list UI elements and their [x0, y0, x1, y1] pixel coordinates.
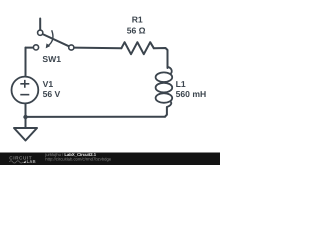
- CircuitLab logo waveform: [9, 161, 23, 163]
- wire: switch common to resistor R1 left lead: [74, 47, 122, 50]
- wire: L1 bottom to bottom-right corner: [165, 107, 167, 117]
- footer bar: [0, 153, 220, 166]
- switch throw 2 terminal: [33, 45, 38, 50]
- svg-text:SW1: SW1: [42, 54, 61, 64]
- V1 minus sign: [20, 94, 29, 96]
- switch actuator arrow: [48, 30, 53, 45]
- CircuitLab logo arrow mark: [23, 161, 26, 164]
- svg-text:56 V: 56 V: [43, 89, 61, 99]
- switch common terminal: [69, 45, 74, 50]
- wire: open stub above switch throw 1: [39, 19, 41, 31]
- resistor R1: [121, 42, 153, 54]
- wire: ground stub: [25, 117, 27, 128]
- switch throw 1 terminal: [38, 30, 43, 35]
- V1 plus sign: [20, 80, 29, 88]
- wire: V1 bottom to junction: [25, 103, 27, 117]
- voltage source V1: [12, 77, 39, 104]
- wire: switch throw 2 to left rail corner: [26, 47, 34, 49]
- wire: bottom rail: [26, 116, 166, 118]
- wire: left rail down to V1 top: [25, 48, 27, 77]
- svg-text:560 mH: 560 mH: [176, 89, 207, 99]
- junction node at V1 bottom: [23, 115, 27, 119]
- svg-text:V1: V1: [43, 79, 54, 89]
- svg-text:http://circuitlab.com/c/rmd7bz: http://circuitlab.com/c/rmd7bzvbdge: [45, 156, 112, 161]
- wire: R1 right lead to top-right corner and down to L1: [154, 48, 168, 68]
- switch SW1: [33, 30, 74, 50]
- inductor L1: [156, 67, 173, 107]
- svg-text:56 Ω: 56 Ω: [127, 26, 146, 36]
- svg-text:LAB: LAB: [27, 159, 36, 164]
- svg-text:L1: L1: [176, 79, 186, 89]
- svg-text:R1: R1: [132, 15, 143, 25]
- ground: [14, 128, 37, 141]
- switch blade: [43, 34, 69, 46]
